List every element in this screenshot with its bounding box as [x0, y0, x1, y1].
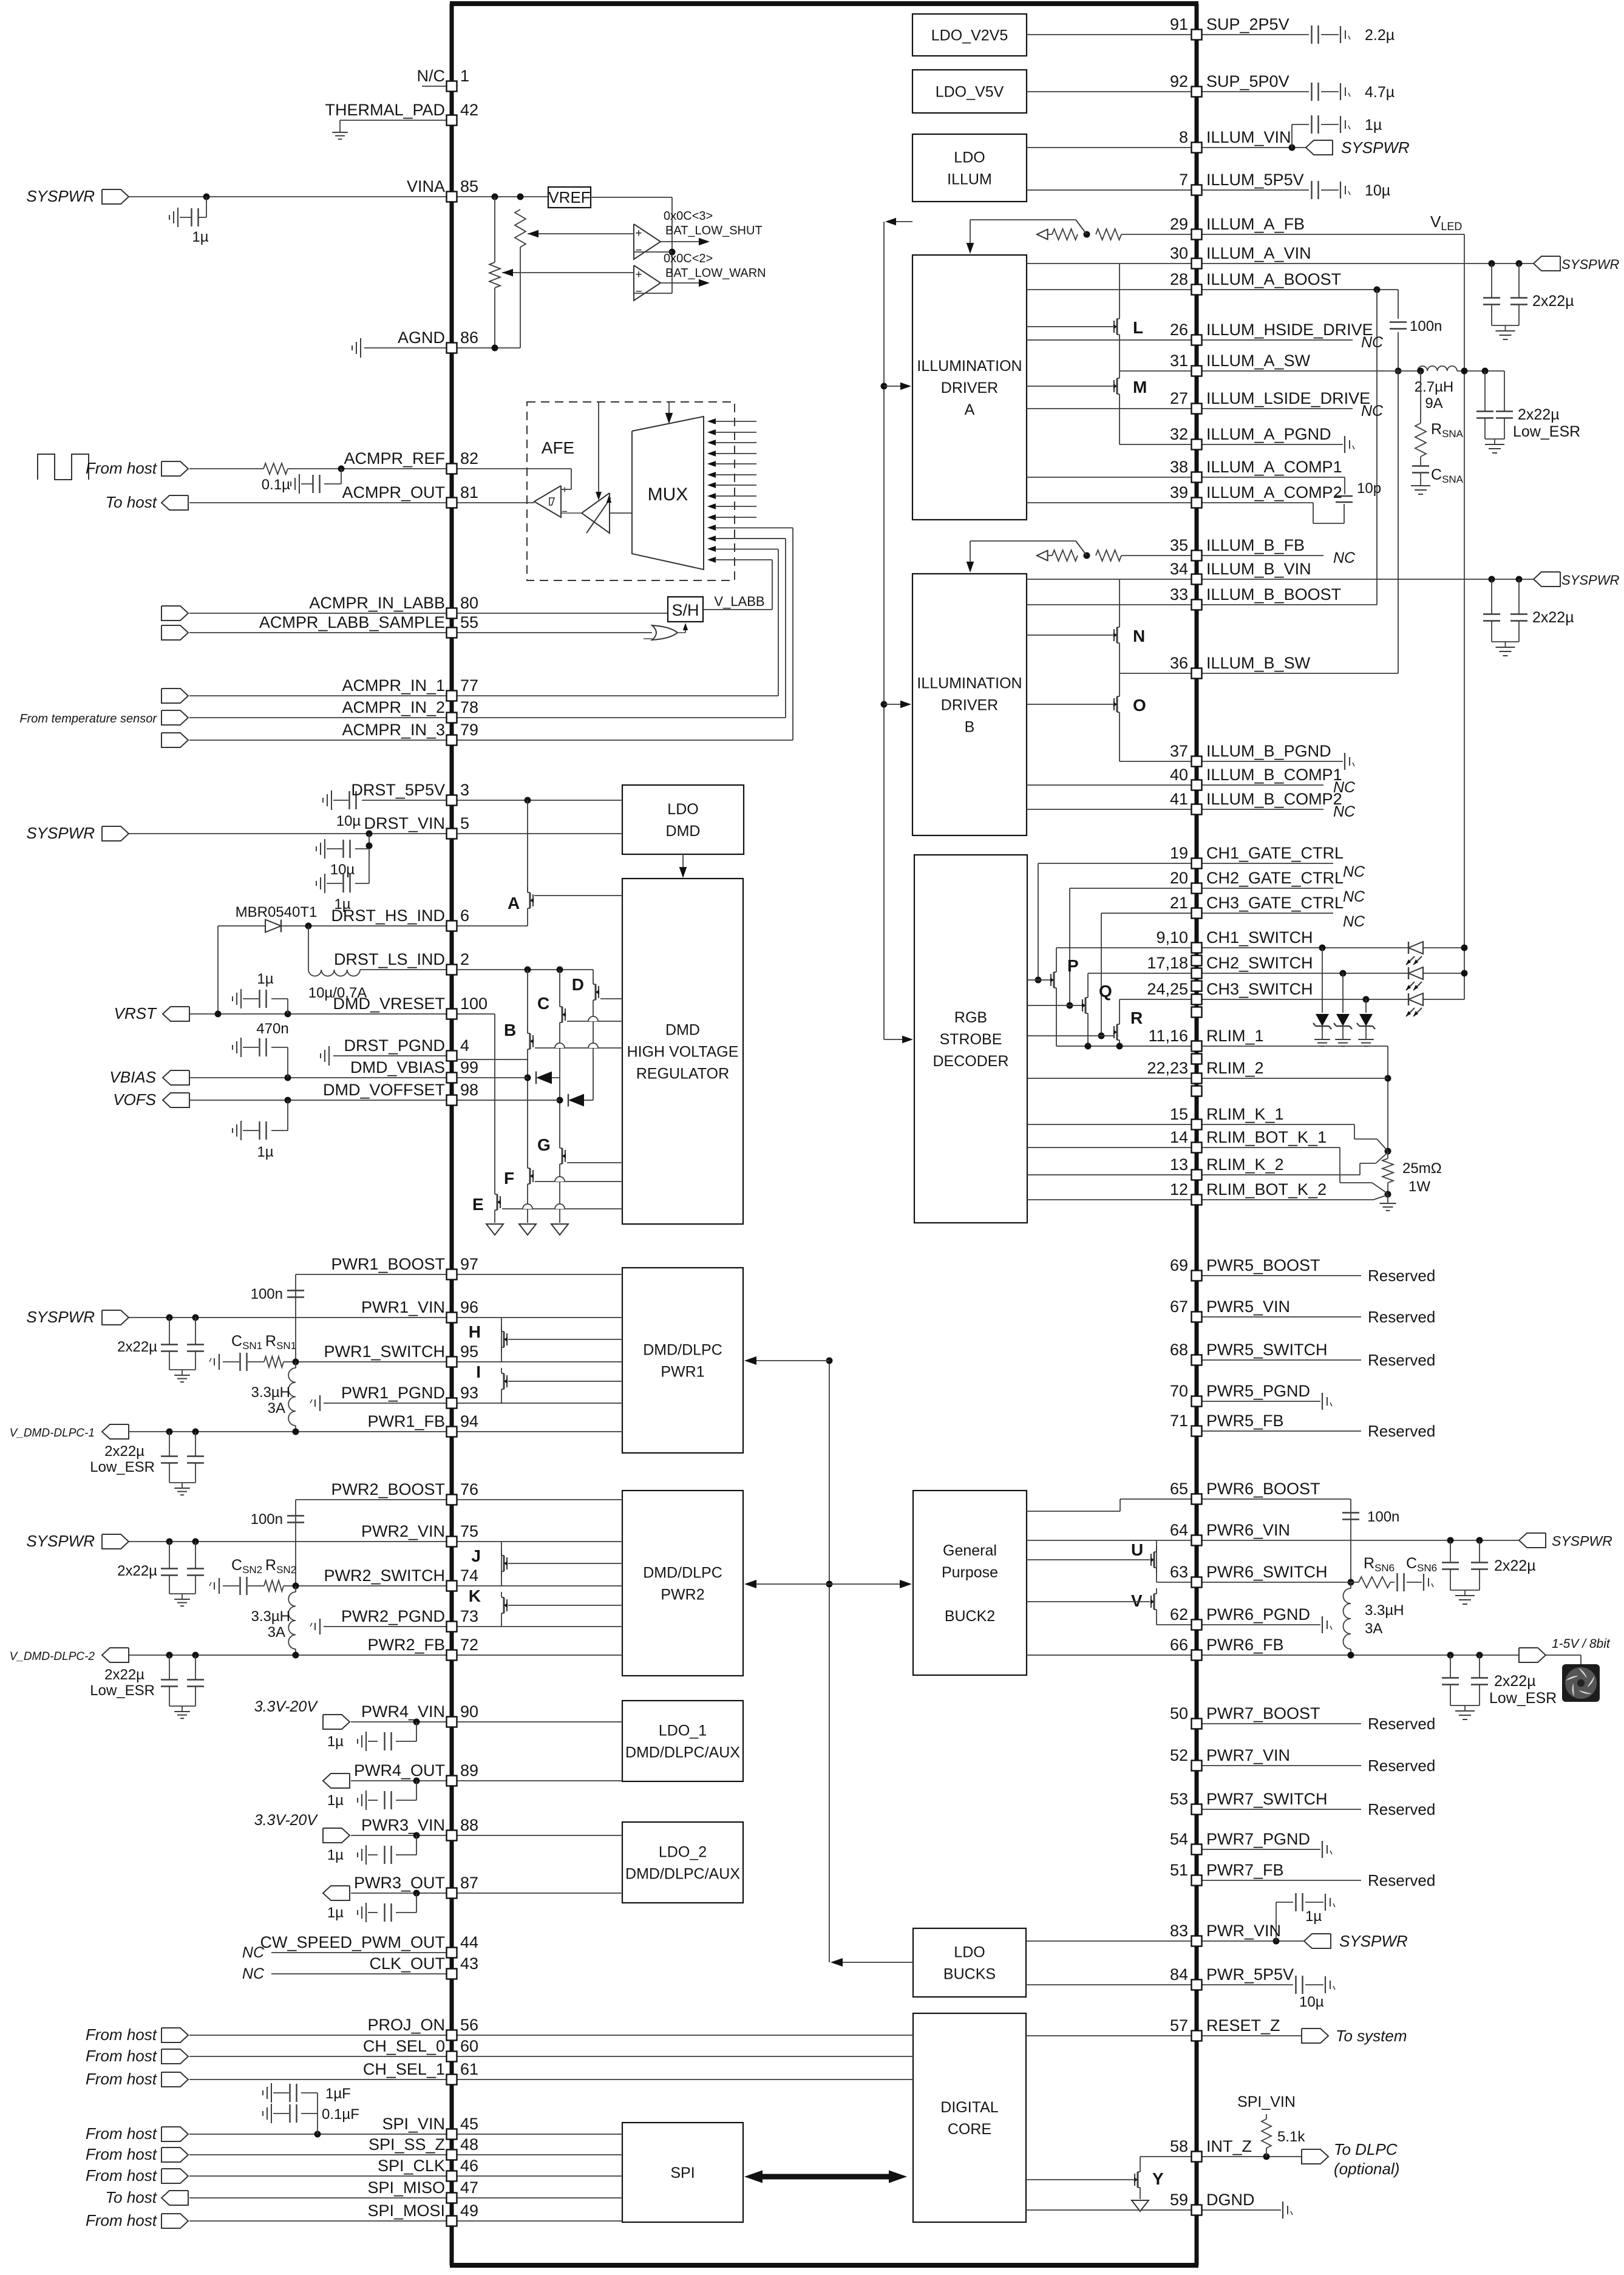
- svg-text:58: 58: [1170, 2137, 1188, 2155]
- svg-text:76: 76: [460, 1480, 478, 1498]
- svg-text:H: H: [469, 1322, 481, 1341]
- svg-text:ILLUM_B_COMP1: ILLUM_B_COMP1: [1206, 766, 1342, 784]
- svg-text:ILLUM_B_FB: ILLUM_B_FB: [1206, 536, 1305, 554]
- svg-text:RLIM_2: RLIM_2: [1206, 1059, 1264, 1077]
- svg-text:I: I: [476, 1362, 481, 1381]
- svg-text:2x22µ: 2x22µ: [1532, 293, 1574, 310]
- svg-text:9A: 9A: [1425, 395, 1442, 412]
- svg-text:78: 78: [460, 698, 478, 716]
- svg-text:1µ: 1µ: [192, 229, 208, 245]
- svg-text:100n: 100n: [1367, 1509, 1399, 1525]
- svg-text:84: 84: [1170, 1965, 1188, 1984]
- svg-text:B: B: [504, 1021, 516, 1039]
- svg-text:74: 74: [460, 1566, 478, 1585]
- svg-text:Purpose: Purpose: [942, 1564, 998, 1581]
- svg-text:PWR5_SWITCH: PWR5_SWITCH: [1206, 1341, 1328, 1359]
- svg-text:RESET_Z: RESET_Z: [1206, 2016, 1280, 2035]
- svg-text:SYSPWR: SYSPWR: [26, 824, 95, 842]
- svg-text:R: R: [1130, 1008, 1143, 1027]
- svg-text:0.1µF: 0.1µF: [322, 2106, 359, 2123]
- svg-text:PWR2: PWR2: [661, 1586, 704, 1603]
- svg-text:21: 21: [1170, 894, 1188, 912]
- svg-text:PWR1_PGND: PWR1_PGND: [341, 1384, 445, 1402]
- svg-text:85: 85: [460, 177, 478, 196]
- svg-text:AFE: AFE: [542, 438, 574, 457]
- svg-text:24,25: 24,25: [1147, 980, 1188, 998]
- svg-text:3.3V-20V: 3.3V-20V: [254, 1812, 319, 1829]
- svg-text:From host: From host: [86, 2070, 158, 2088]
- svg-text:PWR2_SWITCH: PWR2_SWITCH: [324, 1566, 445, 1585]
- svg-text:50: 50: [1170, 1704, 1188, 1722]
- svg-text:SYSPWR: SYSPWR: [26, 1308, 95, 1326]
- svg-text:To host: To host: [106, 2188, 158, 2206]
- svg-text:ILLUM_B_COMP2: ILLUM_B_COMP2: [1206, 790, 1342, 808]
- svg-text:CH_SEL_0: CH_SEL_0: [363, 2037, 445, 2055]
- svg-text:From host: From host: [86, 2211, 158, 2229]
- svg-text:30: 30: [1170, 244, 1188, 262]
- svg-text:ILLUM_B_VIN: ILLUM_B_VIN: [1206, 560, 1311, 578]
- svg-text:Y: Y: [1152, 2169, 1164, 2188]
- svg-text:5.1k: 5.1k: [1277, 2129, 1305, 2145]
- svg-text:LDO_1: LDO_1: [659, 1722, 707, 1739]
- svg-text:PWR3_VIN: PWR3_VIN: [361, 1816, 445, 1834]
- svg-text:ACMPR_IN_2: ACMPR_IN_2: [342, 698, 445, 716]
- svg-text:From host: From host: [86, 2124, 158, 2143]
- svg-text:V_DMD-DLPC-2: V_DMD-DLPC-2: [10, 1650, 95, 1663]
- svg-text:O: O: [1133, 696, 1146, 715]
- svg-text:RLIM_K_1: RLIM_K_1: [1206, 1105, 1284, 1123]
- svg-text:91: 91: [1170, 15, 1188, 33]
- svg-text:CW_SPEED_PWM_OUT: CW_SPEED_PWM_OUT: [260, 1933, 445, 1951]
- svg-text:DMD_VOFFSET: DMD_VOFFSET: [323, 1081, 445, 1099]
- svg-text:SPI_VIN: SPI_VIN: [382, 2115, 445, 2133]
- svg-text:DMD: DMD: [665, 1022, 700, 1039]
- svg-text:Low_ESR: Low_ESR: [90, 1682, 155, 1699]
- svg-text:45: 45: [460, 2115, 478, 2133]
- svg-text:70: 70: [1170, 1382, 1188, 1400]
- svg-text:33: 33: [1170, 585, 1188, 604]
- svg-text:PWR1_SWITCH: PWR1_SWITCH: [324, 1342, 445, 1361]
- svg-text:11,16: 11,16: [1148, 1027, 1188, 1045]
- svg-text:ILLUM_A_VIN: ILLUM_A_VIN: [1206, 244, 1311, 262]
- svg-text:RLIM_BOT_K_2: RLIM_BOT_K_2: [1206, 1180, 1327, 1199]
- svg-text:S/H: S/H: [671, 601, 699, 619]
- svg-text:79: 79: [460, 721, 478, 739]
- svg-text:E: E: [472, 1195, 484, 1214]
- svg-text:ACMPR_IN_LABB: ACMPR_IN_LABB: [309, 594, 445, 612]
- svg-text:CLK_OUT: CLK_OUT: [369, 1954, 445, 1973]
- svg-text:To host: To host: [106, 493, 158, 511]
- svg-text:22,23: 22,23: [1147, 1059, 1188, 1077]
- svg-text:NC: NC: [242, 1965, 265, 1982]
- svg-text:LDO: LDO: [954, 149, 985, 166]
- svg-text:97: 97: [460, 1255, 478, 1273]
- svg-text:93: 93: [460, 1384, 478, 1402]
- svg-text:10µ: 10µ: [1299, 1994, 1324, 2010]
- svg-text:47: 47: [460, 2178, 478, 2197]
- svg-text:SYSPWR: SYSPWR: [26, 1532, 95, 1550]
- svg-text:J: J: [471, 1546, 481, 1565]
- svg-text:PWR5_BOOST: PWR5_BOOST: [1206, 1256, 1320, 1274]
- svg-text:86: 86: [460, 328, 478, 347]
- svg-text:PWR7_FB: PWR7_FB: [1206, 1861, 1284, 1879]
- svg-text:STROBE: STROBE: [940, 1031, 1002, 1048]
- svg-text:2.2µ: 2.2µ: [1365, 27, 1395, 44]
- svg-text:PWR6_VIN: PWR6_VIN: [1206, 1521, 1290, 1539]
- svg-text:ACMPR_IN_1: ACMPR_IN_1: [342, 676, 445, 695]
- svg-text:61: 61: [460, 2060, 478, 2078]
- svg-text:SPI_SS_Z: SPI_SS_Z: [369, 2135, 445, 2154]
- svg-text:P: P: [1067, 956, 1079, 975]
- svg-text:100n: 100n: [251, 1511, 283, 1528]
- svg-text:71: 71: [1170, 1412, 1188, 1430]
- svg-text:1-5V / 8bit: 1-5V / 8bit: [1552, 1637, 1611, 1651]
- svg-text:Low_ESR: Low_ESR: [90, 1459, 155, 1475]
- svg-text:Reserved: Reserved: [1368, 1756, 1435, 1775]
- svg-text:ACMPR_IN_3: ACMPR_IN_3: [342, 721, 445, 739]
- svg-text:SYSPWR: SYSPWR: [26, 187, 95, 205]
- svg-text:44: 44: [460, 1933, 478, 1951]
- svg-text:66: 66: [1170, 1636, 1188, 1654]
- svg-text:PWR2_PGND: PWR2_PGND: [341, 1607, 445, 1625]
- svg-text:Reserved: Reserved: [1368, 1308, 1435, 1326]
- svg-text:5: 5: [460, 814, 469, 832]
- svg-text:Low_ESR: Low_ESR: [1513, 423, 1580, 440]
- svg-text:1µ: 1µ: [327, 1905, 344, 1921]
- svg-text:69: 69: [1170, 1256, 1188, 1274]
- svg-text:ILLUM_5P5V: ILLUM_5P5V: [1206, 171, 1304, 189]
- svg-text:40: 40: [1170, 766, 1188, 784]
- svg-text:38: 38: [1170, 458, 1188, 476]
- svg-text:ILLUM_LSIDE_DRIVE: ILLUM_LSIDE_DRIVE: [1206, 389, 1370, 407]
- svg-text:A: A: [965, 401, 975, 418]
- svg-text:39: 39: [1170, 483, 1188, 502]
- svg-text:LDO: LDO: [667, 801, 698, 818]
- svg-text:SYSPWR: SYSPWR: [1561, 573, 1619, 588]
- svg-text:DIGITAL: DIGITAL: [940, 2099, 998, 2116]
- svg-text:PWR4_VIN: PWR4_VIN: [361, 1702, 445, 1721]
- svg-text:PWR1: PWR1: [661, 1364, 704, 1381]
- svg-text:95: 95: [460, 1342, 478, 1361]
- svg-text:PWR_5P5V: PWR_5P5V: [1206, 1965, 1294, 1984]
- svg-text:49: 49: [460, 2202, 478, 2220]
- svg-text:59: 59: [1170, 2191, 1188, 2209]
- svg-text:ILLUM_B_BOOST: ILLUM_B_BOOST: [1206, 585, 1341, 604]
- svg-text:PWR2_VIN: PWR2_VIN: [361, 1522, 445, 1540]
- svg-text:SPI_VIN: SPI_VIN: [1237, 2093, 1296, 2110]
- svg-text:SPI_MISO: SPI_MISO: [367, 2178, 445, 2197]
- svg-text:From host: From host: [86, 2025, 158, 2044]
- svg-text:−: −: [635, 285, 642, 298]
- svg-text:67: 67: [1170, 1297, 1188, 1316]
- svg-text:1µ: 1µ: [257, 971, 273, 987]
- svg-text:LDO: LDO: [954, 1944, 985, 1961]
- svg-text:1µ: 1µ: [257, 1144, 273, 1160]
- svg-text:NC: NC: [1333, 549, 1356, 566]
- svg-text:15: 15: [1170, 1105, 1188, 1123]
- svg-text:DMD/DLPC: DMD/DLPC: [643, 1342, 722, 1359]
- svg-text:NC: NC: [1343, 913, 1365, 930]
- svg-text:PWR2_BOOST: PWR2_BOOST: [331, 1480, 445, 1498]
- svg-text:CH3_SWITCH: CH3_SWITCH: [1206, 980, 1313, 998]
- svg-text:98: 98: [460, 1081, 478, 1099]
- svg-text:INT_Z: INT_Z: [1206, 2137, 1252, 2155]
- svg-text:DRIVER: DRIVER: [941, 697, 998, 714]
- svg-text:72: 72: [460, 1636, 478, 1654]
- svg-text:PWR7_SWITCH: PWR7_SWITCH: [1206, 1790, 1328, 1808]
- svg-text:SYSPWR: SYSPWR: [1339, 1932, 1408, 1950]
- svg-text:ILLUM_A_BOOST: ILLUM_A_BOOST: [1206, 270, 1341, 288]
- svg-text:2x22µ: 2x22µ: [104, 1667, 144, 1683]
- svg-text:ACMPR_REF: ACMPR_REF: [344, 449, 445, 468]
- svg-text:DRST_PGND: DRST_PGND: [344, 1036, 445, 1055]
- svg-text:LDO_2: LDO_2: [659, 1844, 707, 1861]
- svg-text:AGND: AGND: [398, 328, 445, 347]
- svg-text:4.7µ: 4.7µ: [1365, 84, 1395, 101]
- svg-text:V_DMD-DLPC-1: V_DMD-DLPC-1: [10, 1427, 95, 1440]
- svg-text:VRST: VRST: [114, 1004, 157, 1022]
- svg-text:41: 41: [1170, 790, 1188, 808]
- svg-text:VINA: VINA: [407, 177, 445, 196]
- svg-text:SPI_MOSI: SPI_MOSI: [367, 2202, 445, 2220]
- svg-text:To DLPC: To DLPC: [1334, 2140, 1398, 2158]
- svg-text:SUP_2P5V: SUP_2P5V: [1206, 15, 1289, 33]
- svg-text:PWR4_OUT: PWR4_OUT: [354, 1761, 445, 1780]
- svg-text:SYSPWR: SYSPWR: [1561, 257, 1619, 272]
- svg-text:PWR5_VIN: PWR5_VIN: [1206, 1297, 1290, 1316]
- svg-text:CH3_GATE_CTRL: CH3_GATE_CTRL: [1206, 894, 1344, 912]
- svg-text:ACMPR_OUT: ACMPR_OUT: [342, 483, 445, 502]
- svg-text:CH2_GATE_CTRL: CH2_GATE_CTRL: [1206, 869, 1344, 887]
- svg-text:3A: 3A: [268, 1624, 285, 1641]
- svg-text:0x0C<3>: 0x0C<3>: [664, 209, 713, 223]
- svg-text:94: 94: [460, 1412, 478, 1430]
- svg-text:RLIM_1: RLIM_1: [1206, 1027, 1264, 1045]
- svg-text:RLIM_K_2: RLIM_K_2: [1206, 1155, 1284, 1174]
- svg-text:PWR2_FB: PWR2_FB: [367, 1636, 445, 1654]
- svg-text:ILLUMINATION: ILLUMINATION: [917, 358, 1022, 375]
- svg-text:From host: From host: [86, 2166, 158, 2185]
- svg-text:PWR6_BOOST: PWR6_BOOST: [1206, 1480, 1320, 1498]
- svg-text:DMD/DLPC/AUX: DMD/DLPC/AUX: [625, 1866, 740, 1883]
- svg-text:10µ: 10µ: [336, 813, 361, 829]
- svg-text:DMD/DLPC: DMD/DLPC: [643, 1565, 722, 1582]
- svg-text:ILLUM: ILLUM: [947, 171, 992, 188]
- svg-text:34: 34: [1170, 560, 1188, 578]
- svg-text:55: 55: [460, 613, 478, 631]
- svg-text:2x22µ: 2x22µ: [1494, 1557, 1536, 1574]
- svg-text:B: B: [965, 719, 975, 736]
- svg-text:PWR3_OUT: PWR3_OUT: [354, 1874, 445, 1892]
- svg-text:M: M: [1133, 378, 1147, 396]
- svg-text:L: L: [1133, 318, 1143, 337]
- svg-text:CH_SEL_1: CH_SEL_1: [363, 2060, 445, 2078]
- svg-text:VREF: VREF: [548, 188, 590, 206]
- svg-text:7: 7: [1179, 171, 1188, 189]
- svg-text:20: 20: [1170, 869, 1188, 887]
- svg-text:36: 36: [1170, 654, 1188, 672]
- svg-text:73: 73: [460, 1607, 478, 1625]
- svg-text:PROJ_ON: PROJ_ON: [367, 2016, 445, 2034]
- svg-text:From host: From host: [86, 459, 158, 477]
- svg-text:VBIAS: VBIAS: [109, 1068, 156, 1086]
- svg-text:42: 42: [460, 101, 478, 119]
- svg-text:43: 43: [460, 1954, 478, 1973]
- svg-text:3.3µH: 3.3µH: [1365, 1602, 1404, 1619]
- svg-text:PWR7_BOOST: PWR7_BOOST: [1206, 1704, 1320, 1722]
- svg-text:ILLUM_B_SW: ILLUM_B_SW: [1206, 654, 1311, 672]
- svg-text:RLIM_BOT_K_1: RLIM_BOT_K_1: [1206, 1128, 1327, 1146]
- svg-text:2: 2: [460, 950, 469, 968]
- svg-text:31: 31: [1170, 352, 1188, 370]
- svg-text:17,18: 17,18: [1147, 954, 1188, 972]
- svg-text:Reserved: Reserved: [1368, 1267, 1435, 1285]
- svg-text:PWR1_BOOST: PWR1_BOOST: [331, 1255, 445, 1273]
- svg-text:A: A: [508, 894, 520, 913]
- svg-text:53: 53: [1170, 1790, 1188, 1808]
- svg-text:(optional): (optional): [1334, 2160, 1399, 2178]
- svg-text:LDO_V5V: LDO_V5V: [936, 84, 1004, 101]
- svg-text:10p: 10p: [1357, 480, 1381, 497]
- svg-text:+: +: [635, 227, 642, 240]
- svg-text:14: 14: [1170, 1128, 1188, 1146]
- svg-text:DECODER: DECODER: [933, 1053, 1008, 1070]
- svg-text:PWR5_PGND: PWR5_PGND: [1206, 1382, 1310, 1400]
- svg-text:Reserved: Reserved: [1368, 1800, 1435, 1818]
- svg-text:Reserved: Reserved: [1368, 1715, 1435, 1733]
- svg-text:ILLUM_B_PGND: ILLUM_B_PGND: [1206, 742, 1331, 760]
- svg-text:52: 52: [1170, 1746, 1188, 1764]
- svg-text:48: 48: [460, 2135, 478, 2154]
- svg-text:0x0C<2>: 0x0C<2>: [664, 252, 713, 265]
- svg-text:V_LABB: V_LABB: [714, 594, 764, 609]
- svg-text:CH1_GATE_CTRL: CH1_GATE_CTRL: [1206, 844, 1344, 862]
- svg-text:12: 12: [1170, 1180, 1188, 1199]
- svg-text:92: 92: [1170, 72, 1188, 90]
- svg-text:PWR6_FB: PWR6_FB: [1206, 1636, 1284, 1654]
- svg-text:ILLUM_A_COMP2: ILLUM_A_COMP2: [1206, 483, 1342, 502]
- svg-text:90: 90: [460, 1702, 478, 1721]
- svg-text:83: 83: [1170, 1922, 1188, 1940]
- svg-text:DGND: DGND: [1206, 2191, 1255, 2209]
- svg-text:57: 57: [1170, 2016, 1188, 2035]
- svg-text:ILLUM_A_COMP1: ILLUM_A_COMP1: [1206, 458, 1342, 476]
- svg-text:From temperature sensor: From temperature sensor: [19, 712, 157, 726]
- svg-text:SUP_5P0V: SUP_5P0V: [1206, 72, 1289, 90]
- svg-text:8: 8: [1179, 128, 1188, 146]
- svg-text:LDO_V2V5: LDO_V2V5: [931, 27, 1008, 44]
- svg-text:From host: From host: [86, 2047, 158, 2065]
- svg-text:81: 81: [460, 483, 478, 502]
- svg-text:NC: NC: [1343, 888, 1365, 905]
- svg-text:General: General: [943, 1542, 997, 1559]
- svg-text:19: 19: [1170, 844, 1188, 862]
- svg-text:51: 51: [1170, 1861, 1188, 1879]
- svg-text:THERMAL_PAD: THERMAL_PAD: [325, 101, 445, 119]
- svg-text:PWR6_PGND: PWR6_PGND: [1206, 1605, 1310, 1624]
- svg-text:SPI_CLK: SPI_CLK: [378, 2157, 445, 2175]
- svg-text:ILLUM_A_PGND: ILLUM_A_PGND: [1206, 425, 1331, 443]
- svg-text:1µ: 1µ: [1365, 117, 1382, 134]
- svg-text:65: 65: [1170, 1480, 1188, 1498]
- svg-text:DMD/DLPC/AUX: DMD/DLPC/AUX: [625, 1744, 740, 1761]
- svg-text:64: 64: [1170, 1521, 1188, 1539]
- svg-text:PWR1_FB: PWR1_FB: [367, 1412, 445, 1430]
- svg-text:10µ: 10µ: [330, 862, 355, 878]
- svg-text:Reserved: Reserved: [1368, 1351, 1435, 1369]
- svg-text:96: 96: [460, 1298, 478, 1316]
- svg-text:DMD_VRESET: DMD_VRESET: [333, 995, 445, 1013]
- svg-text:100n: 100n: [251, 1286, 283, 1302]
- svg-text:1W: 1W: [1408, 1178, 1430, 1195]
- svg-text:BUCKS: BUCKS: [943, 1966, 996, 1983]
- svg-text:26: 26: [1170, 321, 1188, 339]
- svg-text:ACMPR_LABB_SAMPLE: ACMPR_LABB_SAMPLE: [259, 613, 445, 631]
- svg-text:Reserved: Reserved: [1368, 1871, 1435, 1889]
- svg-text:ILLUMINATION: ILLUMINATION: [917, 675, 1022, 692]
- svg-text:CH1_SWITCH: CH1_SWITCH: [1206, 928, 1313, 947]
- svg-text:C: C: [537, 994, 549, 1013]
- svg-text:−: −: [635, 244, 642, 257]
- svg-text:1µ: 1µ: [327, 1847, 344, 1863]
- svg-text:3.3V-20V: 3.3V-20V: [254, 1698, 319, 1715]
- svg-text:PWR6_SWITCH: PWR6_SWITCH: [1206, 1563, 1328, 1581]
- svg-text:REGULATOR: REGULATOR: [636, 1066, 729, 1083]
- svg-text:13: 13: [1170, 1155, 1188, 1174]
- svg-text:56: 56: [460, 2016, 478, 2034]
- svg-text:1µ: 1µ: [327, 1733, 344, 1750]
- svg-text:68: 68: [1170, 1341, 1188, 1359]
- svg-text:V: V: [1131, 1591, 1143, 1610]
- svg-text:F: F: [504, 1169, 514, 1188]
- svg-text:100: 100: [460, 995, 488, 1013]
- svg-text:BUCK2: BUCK2: [945, 1608, 995, 1625]
- svg-text:DRIVER: DRIVER: [941, 379, 998, 396]
- svg-text:SYSPWR: SYSPWR: [1552, 1533, 1612, 1549]
- svg-text:60: 60: [460, 2037, 478, 2055]
- svg-text:DRST_HS_IND: DRST_HS_IND: [331, 906, 445, 925]
- svg-text:ILLUM_HSIDE_DRIVE: ILLUM_HSIDE_DRIVE: [1206, 321, 1373, 339]
- svg-text:99: 99: [460, 1058, 478, 1076]
- svg-text:62: 62: [1170, 1605, 1188, 1624]
- svg-text:88: 88: [460, 1816, 478, 1834]
- svg-text:ILLUM_A_SW: ILLUM_A_SW: [1206, 352, 1311, 370]
- svg-text:25mΩ: 25mΩ: [1402, 1160, 1442, 1177]
- svg-text:+: +: [635, 268, 642, 281]
- svg-text:PWR1_VIN: PWR1_VIN: [361, 1298, 445, 1316]
- svg-text:ILLUM_A_FB: ILLUM_A_FB: [1206, 215, 1305, 233]
- svg-text:−: −: [562, 506, 568, 517]
- svg-text:37: 37: [1170, 742, 1188, 760]
- svg-text:63: 63: [1170, 1563, 1188, 1581]
- svg-text:Q: Q: [1099, 982, 1112, 1001]
- svg-text:CH2_SWITCH: CH2_SWITCH: [1206, 954, 1313, 972]
- svg-text:CORE: CORE: [948, 2121, 991, 2138]
- svg-text:2x22µ: 2x22µ: [117, 1339, 157, 1355]
- svg-text:46: 46: [460, 2157, 478, 2175]
- svg-text:DMD: DMD: [666, 823, 701, 840]
- svg-text:3A: 3A: [1365, 1620, 1382, 1637]
- svg-text:77: 77: [460, 676, 478, 695]
- svg-text:PWR5_FB: PWR5_FB: [1206, 1412, 1284, 1430]
- svg-text:2x22µ: 2x22µ: [104, 1443, 144, 1460]
- svg-text:G: G: [537, 1135, 551, 1154]
- svg-text:0.1µ: 0.1µ: [262, 477, 290, 493]
- svg-text:NC: NC: [1343, 863, 1365, 880]
- svg-text:1: 1: [460, 67, 469, 85]
- svg-text:From host: From host: [86, 2145, 158, 2163]
- svg-text:DMD_VBIAS: DMD_VBIAS: [350, 1058, 445, 1076]
